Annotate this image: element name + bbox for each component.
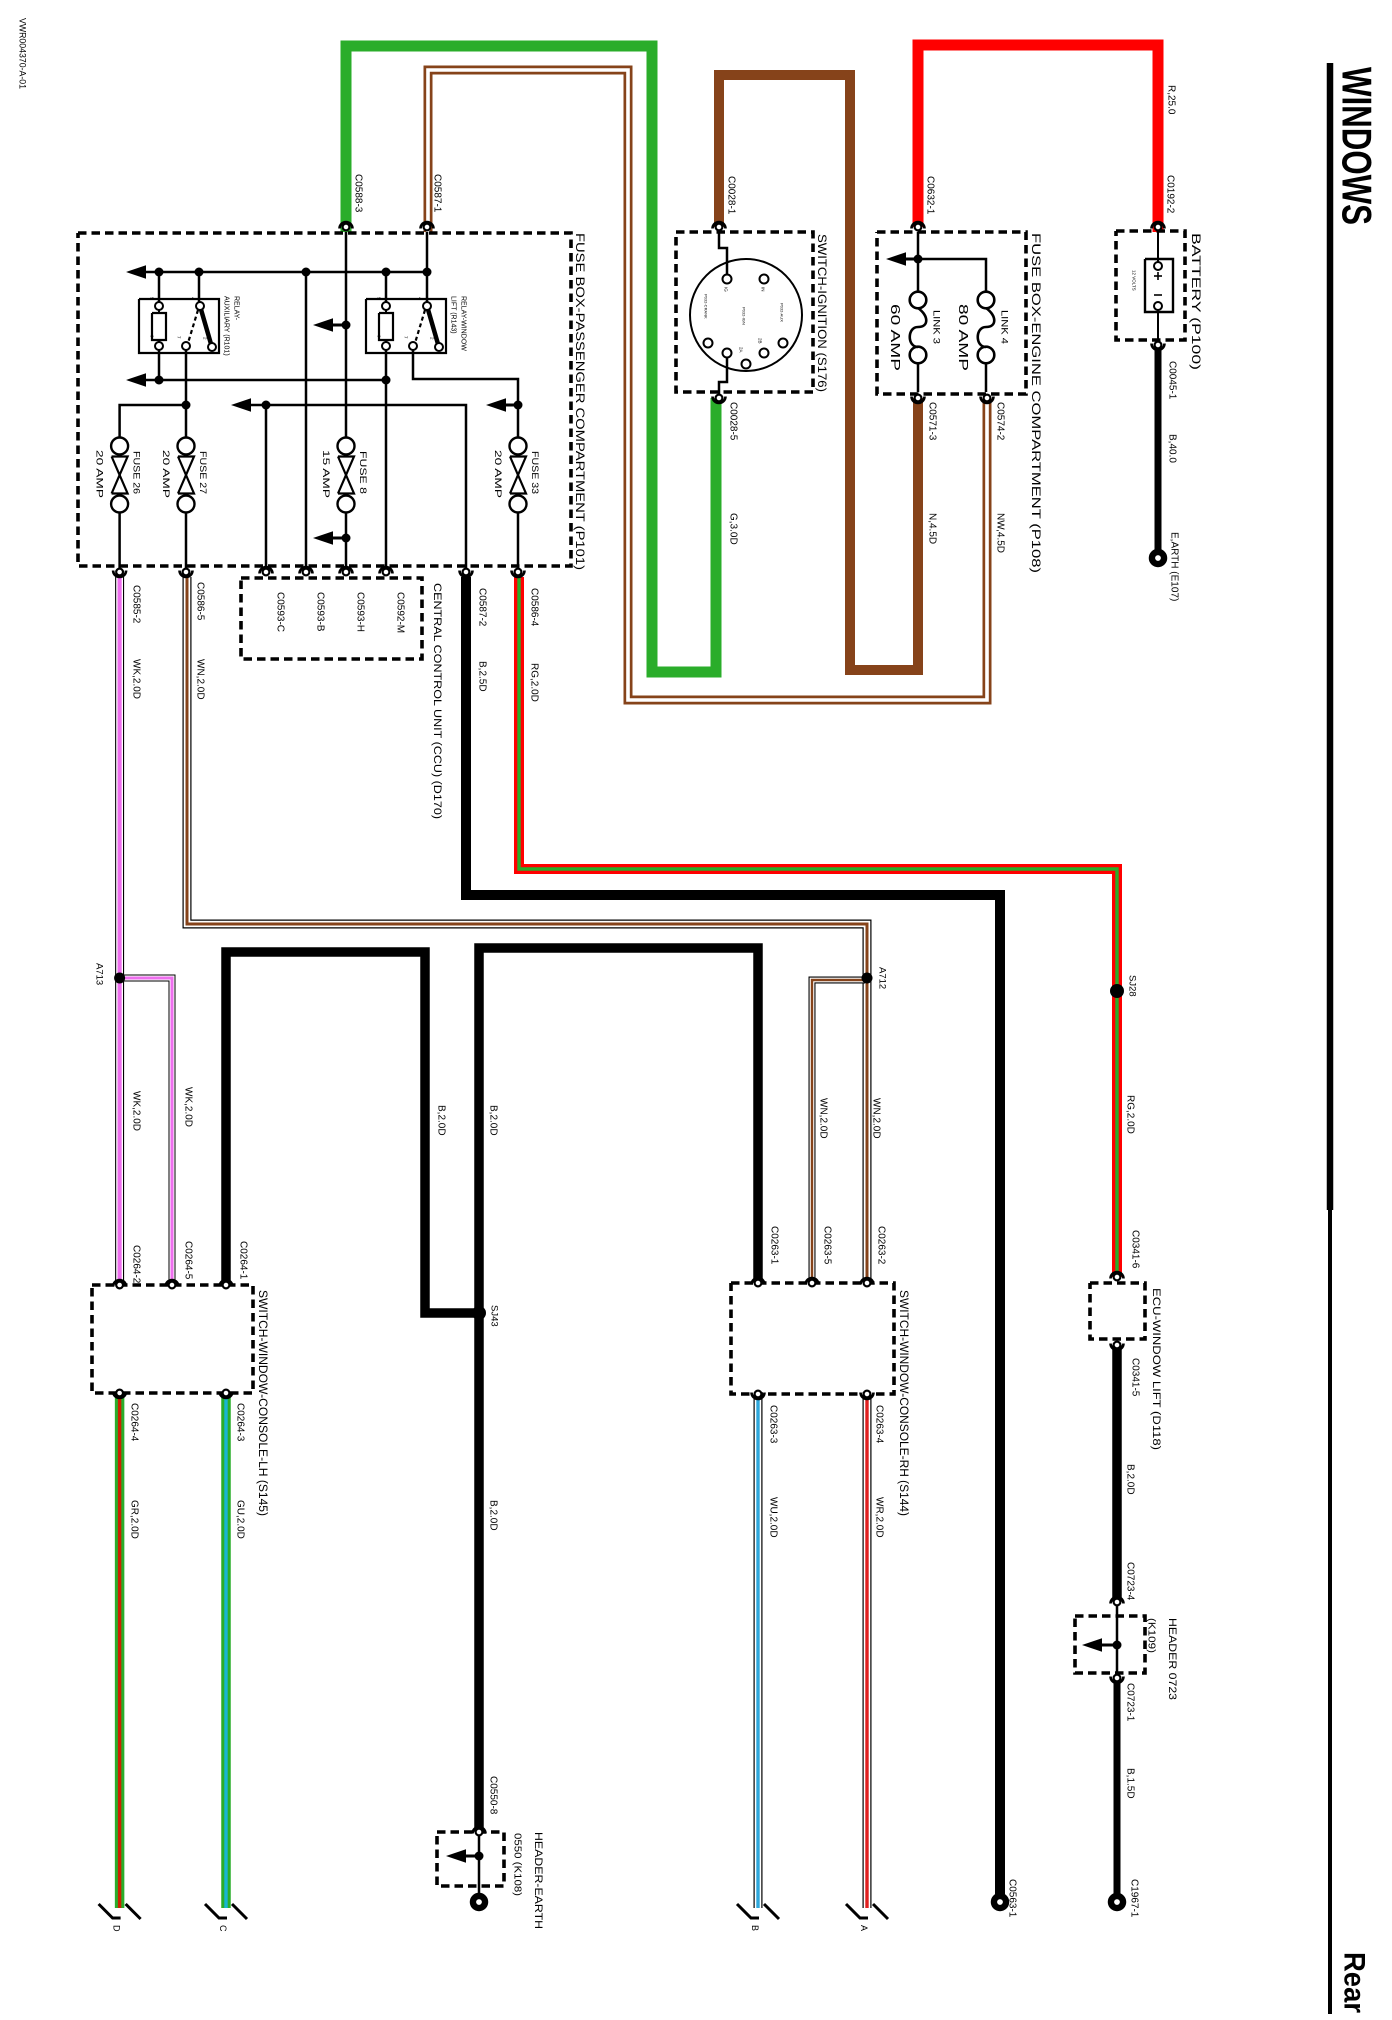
svg-text:SWITCH-WINDOW-CONSOLE-LH (S145: SWITCH-WINDOW-CONSOLE-LH (S145) — [256, 1290, 268, 1516]
svg-text:C: C — [218, 1925, 228, 1932]
ignition switch rotor circle — [690, 259, 802, 371]
splice A713 — [114, 973, 125, 984]
svg-text:C0593-B: C0593-B — [315, 592, 326, 632]
arrow C0587-2 rail continuation — [231, 398, 251, 412]
svg-text:NW,4.5D: NW,4.5D — [995, 513, 1006, 553]
wire C0028-1 to ignition pin — [719, 232, 727, 275]
svg-text:CENTRAL CONTROL UNIT (CCU) (D1: CENTRAL CONTROL UNIT (CCU) (D170) — [431, 583, 443, 819]
wire G,3.0D green: ignition switch C0028-5 to fuse box C0588-3 — [346, 46, 716, 672]
svg-text:C0263-1: C0263-1 — [769, 1226, 780, 1265]
wire B,40.0 battery earth lead — [1155, 345, 1162, 550]
svg-text:FUSE BOX-PASSENGER COMPARTMENT: FUSE BOX-PASSENGER COMPARTMENT (P101) — [573, 233, 587, 570]
svg-text:GU,2.0D: GU,2.0D — [235, 1500, 246, 1539]
svg-text:12 VOLTS: 12 VOLTS — [1132, 270, 1137, 291]
ECU window lift D118 — [1090, 1283, 1145, 1339]
connector C0574-2 — [981, 397, 994, 404]
svg-text:RELAY-: RELAY- — [233, 296, 240, 321]
wire relay R101 output to fuse 26/27 rail — [185, 348, 188, 437]
node busB-R101 coil return — [155, 376, 164, 385]
node busA-C0593-B — [302, 268, 311, 277]
svg-text:B,2.0D: B,2.0D — [488, 1105, 499, 1136]
ignition pin — [760, 275, 769, 284]
connector C0593-C — [260, 567, 273, 574]
svg-text:20 AMP: 20 AMP — [94, 450, 105, 498]
svg-text:B,2.0D: B,2.0D — [488, 1500, 499, 1531]
svg-text:C0563-1: C0563-1 — [1007, 1879, 1018, 1918]
svg-text:C0588-3: C0588-3 — [353, 174, 364, 213]
wire GU,2.0D green-blue below console LH C0264-3 — [221, 1393, 231, 1908]
connector C0264-2 — [113, 1280, 126, 1287]
node fuse 33 feed — [514, 401, 523, 410]
svg-text:WK,2.0D: WK,2.0D — [183, 1087, 194, 1127]
svg-text:P032-AUX: P032-AUX — [780, 303, 785, 322]
svg-text:G,3.0D: G,3.0D — [728, 513, 739, 545]
battery plus sign — [1154, 275, 1162, 277]
wire busA to CCU C0593-B — [305, 272, 308, 569]
node header earth — [475, 1852, 484, 1861]
splice SJ43 — [472, 1306, 486, 1320]
connector C0632-1 — [912, 222, 925, 229]
svg-text:0550 (K108): 0550 (K108) — [512, 1833, 523, 1896]
node busA-R101 coil — [155, 268, 164, 277]
connector C0571-3 — [912, 397, 925, 404]
svg-text:HEADER-EARTH: HEADER-EARTH — [532, 1832, 544, 1929]
earth eyelet C0563-1 — [994, 1896, 1006, 1908]
arrow fuse 33 feed continuation — [486, 398, 506, 412]
battery cell box — [1145, 259, 1173, 312]
connector C0263-4 — [861, 1393, 874, 1400]
connector C0263-5 — [806, 1278, 819, 1285]
svg-text:2B: 2B — [758, 338, 763, 344]
svg-text:ECU-WINDOW LIFT (D118): ECU-WINDOW LIFT (D118) — [1150, 1288, 1162, 1450]
ignition pin — [723, 349, 732, 358]
svg-text:WK,2.0D: WK,2.0D — [131, 1091, 142, 1131]
connector C0192-2 — [1152, 222, 1165, 229]
connector C0264-1 — [220, 1280, 233, 1287]
svg-text:HEADER 0723: HEADER 0723 — [1166, 1618, 1178, 1700]
svg-text:C0550-8: C0550-8 — [488, 1776, 499, 1815]
wire relay R143 output to fuse 33 — [413, 348, 518, 437]
connector C0587-1 — [421, 222, 434, 229]
svg-text:IN: IN — [761, 287, 766, 292]
svg-text:C0592-M: C0592-M — [395, 592, 406, 633]
connector C0264-3 — [220, 1392, 233, 1399]
svg-text:SWITCH-IGNITION (S176): SWITCH-IGNITION (S176) — [815, 234, 829, 392]
svg-text:P032-CRANK: P032-CRANK — [704, 294, 709, 319]
svg-text:20 AMP: 20 AMP — [160, 450, 171, 498]
svg-text:2A: 2A — [739, 347, 744, 353]
wire B,2.0D black: ECU C0341-5 to header C0723-4 — [1112, 1345, 1122, 1602]
fusible link LINK 3 60 AMP — [910, 292, 927, 309]
svg-text:A713: A713 — [94, 963, 105, 985]
connector C0586-5 — [180, 571, 193, 578]
node header 0723 — [1113, 1641, 1122, 1650]
connector C0585-2 — [113, 571, 126, 578]
wire rail to CCU C0587-2 — [250, 405, 466, 569]
switch window console RH S144 — [731, 1283, 894, 1394]
svg-text:C0028-5: C0028-5 — [728, 402, 739, 441]
node C0593-C tap — [262, 401, 271, 410]
relay AUXILIARY (R101) — [139, 299, 219, 353]
svg-text:WN,2.0D: WN,2.0D — [871, 1098, 882, 1139]
connector C0723-1 — [1111, 1677, 1124, 1684]
wire relay R143 coil to busB and CCU C0592-M — [385, 348, 388, 569]
ignition pin — [760, 349, 769, 358]
node fuse 26/27 rail — [182, 401, 191, 410]
svg-text:R,25.0: R,25.0 — [1166, 85, 1177, 115]
harness continuation B — [737, 1904, 759, 1918]
svg-text:WK,2.0D: WK,2.0D — [131, 659, 142, 699]
wire relay R101 coil to busB — [158, 348, 161, 380]
connector C0587-2 — [460, 571, 473, 578]
harness continuation C — [205, 1904, 227, 1918]
svg-text:SWITCH-WINDOW-CONSOLE-RH (S144: SWITCH-WINDOW-CONSOLE-RH (S144) — [897, 1290, 909, 1516]
wire busA to relay R101 common — [198, 272, 201, 304]
bus B with left arrow inside P101 — [126, 373, 146, 387]
wire fuse 26 to C0585-2 — [118, 513, 121, 569]
wire fuse 33 to C0586-4 — [517, 513, 520, 569]
wire B,2.0D black: console LH C0264-1 to splice SJ43 — [226, 952, 479, 1313]
connector C0723-4 — [1111, 1597, 1124, 1603]
arrow fuse 8 feed continuation — [313, 318, 333, 332]
ignition pin — [779, 339, 788, 348]
ignition pin — [742, 360, 751, 369]
harness continuation A — [846, 1904, 868, 1918]
svg-text:A712: A712 — [877, 967, 888, 989]
svg-text:C0264-4: C0264-4 — [129, 1403, 140, 1442]
svg-text:LIFT (R143): LIFT (R143) — [450, 296, 457, 334]
svg-text:C0264-2: C0264-2 — [131, 1245, 142, 1284]
connector C0341-6 — [1111, 1272, 1124, 1278]
svg-text:15 AMP: 15 AMP — [320, 450, 331, 498]
ignition pin — [704, 339, 713, 348]
fuse FUSE 27 20 AMP — [178, 438, 195, 455]
svg-text:SJ43: SJ43 — [489, 1305, 500, 1327]
wire busA to relay R101 coil — [158, 272, 161, 304]
svg-text:(K109): (K109) — [1146, 1618, 1157, 1653]
arrow engine box feed continuation — [886, 252, 906, 266]
earth eyelet E107 — [1152, 552, 1164, 564]
svg-text:C0632-1: C0632-1 — [925, 176, 936, 215]
svg-text:B,2.0D: B,2.0D — [436, 1105, 447, 1136]
battery P100 — [1116, 231, 1185, 340]
connector C0593-H — [340, 567, 353, 574]
fuse box passenger compartment P101 — [78, 233, 571, 566]
svg-text:B,2.5D: B,2.5D — [477, 661, 488, 692]
svg-text:SJ28: SJ28 — [1127, 975, 1138, 997]
svg-text:C0264-3: C0264-3 — [235, 1403, 246, 1442]
svg-text:C1967-1: C1967-1 — [1129, 1879, 1140, 1918]
svg-text:FUSE BOX-ENGINE COMPARTMENT (P: FUSE BOX-ENGINE COMPARTMENT (P108) — [1029, 233, 1043, 573]
wire RG,2.0D red-green: C0586-4 via splice SJ28 to window lift ECU C0341-6 — [519, 577, 1117, 1277]
svg-text:Rear: Rear — [1338, 1952, 1371, 2013]
svg-text:BATTERY (P100): BATTERY (P100) — [1189, 233, 1203, 370]
connector C0028-1 — [713, 222, 726, 229]
svg-text:P032-IGN: P032-IGN — [742, 307, 747, 325]
wire R,25.0 red: battery C0192-2 to engine fuse box C0632-1 — [918, 45, 1158, 232]
battery terminal negative — [1154, 302, 1162, 310]
connector C0045-1 — [1152, 344, 1165, 351]
node fuse 8 output — [342, 534, 351, 543]
svg-text:C0586-5: C0586-5 — [195, 582, 206, 621]
switch ignition S176 — [676, 232, 813, 392]
title rule — [1327, 63, 1334, 1210]
svg-text:VWR004370-A-01: VWR004370-A-01 — [17, 18, 28, 89]
svg-text:C0263-3: C0263-3 — [768, 1405, 779, 1444]
switch window console LH S145 — [92, 1285, 253, 1393]
wire B,2.5D black: CCU C0587-2 to eyelet C0563-1 — [466, 577, 1000, 1895]
svg-text:C0723-1: C0723-1 — [1125, 1683, 1136, 1722]
svg-text:C0341-5: C0341-5 — [1130, 1358, 1141, 1397]
wire C0587-1 to relay R143 common — [426, 232, 429, 304]
node link3/link4 feed — [914, 255, 923, 264]
eyelet below header earth — [473, 1896, 485, 1908]
svg-text:B,40.0: B,40.0 — [1167, 434, 1178, 463]
node busB-R143 coil return — [382, 376, 391, 385]
wire NW,4.5D brown-white: link 4 C0574-2 to fuse box C0587-1 — [428, 70, 987, 700]
svg-text:C0263-4: C0263-4 — [874, 1405, 885, 1444]
node busA-R143 coil — [382, 268, 391, 277]
wire B,2.0D black: splice SJ43 to header-earth C0550-8 — [474, 1313, 484, 1832]
svg-text:FUSE 27: FUSE 27 — [197, 451, 208, 494]
wire busA to relay R143 coil — [385, 272, 388, 304]
svg-text:C0264-5: C0264-5 — [183, 1241, 194, 1280]
svg-text:80 AMP: 80 AMP — [956, 304, 971, 371]
svg-text:C0028-1: C0028-1 — [726, 176, 737, 215]
relay LIFT (R143) — [366, 299, 446, 353]
svg-text:N,4.5D: N,4.5D — [927, 513, 938, 544]
svg-text:WN,2.0D: WN,2.0D — [195, 659, 206, 700]
svg-text:C0263-5: C0263-5 — [822, 1226, 833, 1265]
svg-text:C0574-2: C0574-2 — [995, 402, 1006, 441]
battery leads — [1157, 232, 1159, 262]
svg-text:C0585-2: C0585-2 — [131, 585, 142, 624]
svg-text:C0723-4: C0723-4 — [1125, 1562, 1136, 1601]
battery terminal positive — [1154, 262, 1162, 270]
arrow header 0723 continuation — [1082, 1638, 1102, 1652]
svg-text:C0571-3: C0571-3 — [927, 402, 938, 441]
svg-text:B,1.5D: B,1.5D — [1125, 1768, 1136, 1799]
connector C0264-5 — [166, 1280, 179, 1287]
header earth K108 internal lead — [478, 1836, 481, 1893]
svg-text:WN,2.0D: WN,2.0D — [818, 1098, 829, 1139]
wire C0632-1 into engine fuse box — [917, 232, 920, 291]
svg-text:A: A — [859, 1925, 869, 1931]
wire B,2.0D black: splice SJ43 to console RH C0263-1 — [479, 948, 758, 1313]
wire WN,2.0D branch from node A712 to console RH C0263-5 — [812, 980, 865, 1283]
wire feed to link 4 — [918, 259, 986, 291]
node fuse 8 feed — [342, 321, 351, 330]
node busA-R101 common — [195, 268, 204, 277]
svg-text:C0045-1: C0045-1 — [1167, 361, 1178, 400]
svg-text:C0192-2: C0192-2 — [1165, 175, 1176, 214]
svg-text:WINDOWS: WINDOWS — [1334, 67, 1381, 225]
fusible link LINK 4 80 AMP — [978, 292, 995, 309]
wire fuse 8 to CCU C0593-H — [345, 513, 348, 569]
connector C0586-4 — [512, 571, 525, 578]
wire rail to fuse 26 — [120, 405, 186, 437]
header K109 internal lead — [1116, 1606, 1119, 1674]
connector C0263-1 — [752, 1278, 765, 1285]
wire WK,2.0D branch from node A713 to console LH C0264-5 — [120, 978, 172, 1285]
central control unit CCU D170 — [241, 578, 422, 659]
connector C0264-4 — [113, 1392, 126, 1399]
svg-text:FUSE 26: FUSE 26 — [130, 451, 141, 494]
wire GR,2.0D green-red below console LH C0264-4 — [115, 1393, 125, 1908]
battery minus sign — [1154, 294, 1162, 296]
fuse FUSE 8 15 AMP — [338, 438, 355, 455]
header earth 0550 K108 — [437, 1832, 504, 1886]
svg-text:C0586-4: C0586-4 — [529, 588, 540, 627]
svg-text:FUSE 33: FUSE 33 — [529, 451, 540, 494]
svg-text:E,ARTH (E107): E,ARTH (E107) — [1169, 532, 1180, 601]
wire WN,2.0D white-brown: C0586-5 to node A712 to console RH C0263-2 — [187, 577, 867, 1283]
svg-text:AUXILIARY (R101): AUXILIARY (R101) — [223, 296, 230, 356]
wire B,1.5D black: header C0723-1 to eyelet C1967-1 — [1114, 1678, 1121, 1895]
svg-text:C0264-1: C0264-1 — [238, 1241, 249, 1280]
fuse box engine compartment P108 — [877, 232, 1026, 394]
svg-text:RG,2.0D: RG,2.0D — [1125, 1095, 1136, 1134]
connector C0588-3 — [340, 222, 353, 229]
wire ignition pin to C0028-5 — [719, 357, 727, 396]
connector C0263-2 — [861, 1278, 874, 1285]
svg-text:GR,2.0D: GR,2.0D — [129, 1500, 140, 1539]
svg-text:RG,2.0D: RG,2.0D — [529, 663, 540, 702]
svg-text:B: B — [750, 1925, 760, 1931]
connector C0028-5 — [713, 397, 726, 404]
wire WK,2.0D white-pink: C0585-2 to console LH C0264-2 — [115, 577, 124, 1285]
bus A with left arrow inside P101 — [126, 265, 146, 279]
fuse FUSE 26 20 AMP — [111, 438, 128, 455]
node busA-C0587-1 — [423, 268, 432, 277]
svg-text:C0341-6: C0341-6 — [1130, 1230, 1141, 1269]
svg-text:C0587-2: C0587-2 — [477, 588, 488, 627]
connector C0263-3 — [752, 1393, 765, 1400]
svg-text:20 AMP: 20 AMP — [492, 450, 503, 498]
svg-text:C0593-C: C0593-C — [275, 592, 286, 632]
earth eyelet C1967-1 — [1111, 1896, 1123, 1908]
connector C0593-B — [300, 567, 313, 574]
svg-text:B,2.0D: B,2.0D — [1125, 1464, 1136, 1495]
wire tap to CCU C0593-C — [265, 405, 268, 569]
svg-text:60 AMP: 60 AMP — [888, 304, 903, 371]
splice A712 — [862, 973, 873, 984]
svg-text:RELAY-WINDOW: RELAY-WINDOW — [460, 296, 467, 351]
svg-text:WR,2.0D: WR,2.0D — [874, 1497, 885, 1538]
svg-text:C0587-1: C0587-1 — [432, 174, 443, 213]
wire fuse 27 to C0586-5 — [185, 513, 188, 569]
arrow fuse 8 output continuation — [313, 531, 333, 545]
svg-text:FUSE 8: FUSE 8 — [357, 451, 368, 494]
wire C0588-3 to fuse 8 — [345, 232, 348, 437]
connector C0341-5 — [1111, 1344, 1124, 1351]
wire N,4.5D brown: link 3 C0571-3 to ignition switch C0028-1 — [719, 75, 918, 670]
connector C0592-M — [380, 567, 393, 574]
arrow header earth continuation — [446, 1849, 466, 1863]
svg-text:D: D — [112, 1925, 122, 1932]
splice SJ28 — [1110, 984, 1124, 998]
fuse FUSE 33 20 AMP — [510, 438, 527, 455]
wire WR,2.0D white-red below console RH C0263-4 — [863, 1394, 872, 1908]
svg-text:LINK 3: LINK 3 — [931, 310, 942, 344]
harness continuation D — [99, 1904, 121, 1918]
ignition pin — [723, 275, 732, 284]
wire WU,2.0D white-blue below console RH C0263-3 — [754, 1394, 763, 1908]
svg-text:C0593-H: C0593-H — [355, 592, 366, 632]
connector C0550-8 — [473, 1827, 486, 1833]
svg-text:C0263-2: C0263-2 — [876, 1226, 887, 1265]
svg-text:WU,2.0D: WU,2.0D — [768, 1497, 779, 1538]
svg-text:LINK 4: LINK 4 — [999, 310, 1010, 344]
header 0723 K109 — [1075, 1616, 1145, 1673]
svg-text:IG: IG — [724, 287, 729, 292]
